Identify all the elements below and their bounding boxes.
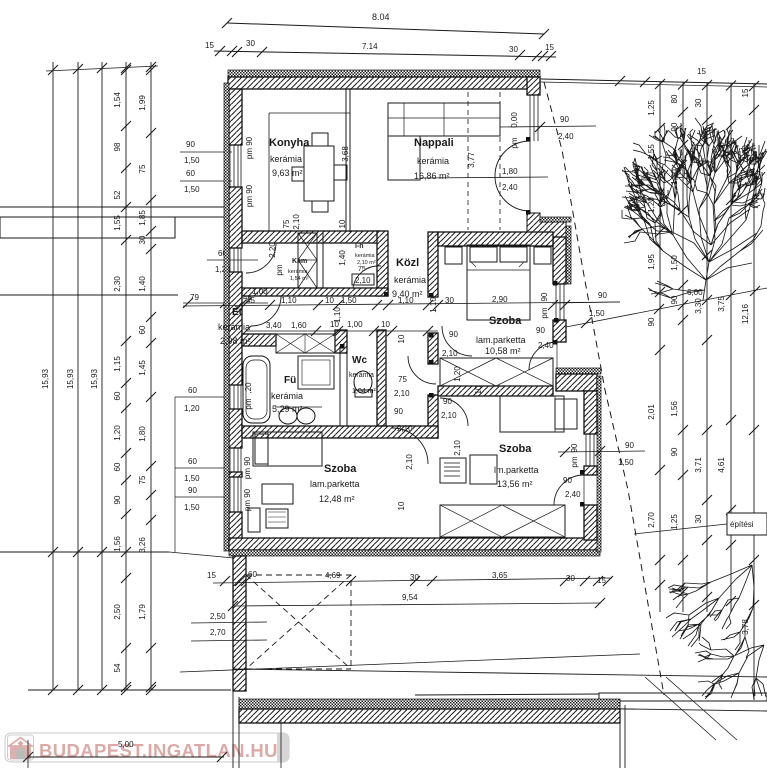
svg-text:60: 60 — [113, 391, 122, 400]
svg-text:15: 15 — [207, 571, 216, 580]
sidewalk line — [558, 708, 767, 711]
left wall window (Szoba2 a) — [229, 448, 231, 472]
Kam closet with X — [298, 233, 317, 288]
right dim line 5 — [753, 84, 755, 612]
svg-text:7.14: 7.14 — [362, 42, 378, 51]
svg-text:10: 10 — [338, 219, 347, 228]
Wc door arc — [408, 356, 436, 384]
svg-text:2,70: 2,70 — [647, 512, 656, 528]
svg-text:4,61: 4,61 — [717, 457, 726, 473]
left dim line 4 — [125, 62, 127, 690]
Kam/I-h divider — [316, 233, 318, 296]
svg-text:1,40: 1,40 — [338, 250, 347, 266]
svg-text:lam.parketta: lam.parketta — [476, 335, 526, 345]
svg-text:kerámia: kerámia — [271, 391, 303, 401]
Szoba1 left door — [442, 326, 472, 356]
svg-text:lm.parketta: lm.parketta — [494, 465, 539, 475]
terrace dashed X — [246, 575, 351, 669]
svg-text:10: 10 — [474, 385, 483, 394]
svg-text:60: 60 — [188, 386, 197, 395]
svg-text:3,78: 3,78 — [741, 619, 750, 635]
left wall window (Konyha) — [229, 145, 231, 187]
svg-text:60: 60 — [113, 462, 122, 471]
Szoba3 desk computer — [440, 458, 466, 483]
watermark logo — [8, 735, 34, 760]
svg-text:pm: pm — [244, 398, 253, 409]
svg-text:12,48 m²: 12,48 m² — [319, 494, 355, 504]
svg-text:1,79: 1,79 — [138, 604, 147, 620]
svg-text:90: 90 — [647, 317, 656, 326]
svg-text:45: 45 — [246, 296, 255, 305]
central wall lower — [428, 395, 438, 438]
svg-text:2,10: 2,10 — [394, 389, 410, 398]
top connector line over left lines — [46, 66, 158, 71]
svg-text:10: 10 — [381, 320, 390, 329]
SE east door — [554, 475, 584, 505]
svg-text:30: 30 — [694, 514, 703, 523]
svg-text:1,85: 1,85 — [138, 210, 147, 226]
svg-text:pm 90: pm 90 — [245, 184, 254, 207]
left dim line 5 — [150, 62, 152, 690]
svg-text:75: 75 — [398, 375, 407, 384]
svg-text:1,00: 1,00 — [347, 320, 363, 329]
Wc toilet — [354, 371, 372, 393]
svg-text:1,10: 1,10 — [333, 307, 342, 323]
Szoba1 top wall — [438, 232, 553, 246]
SE step band — [556, 368, 601, 374]
Szoba2 shelf — [248, 508, 260, 532]
dim 5,00 — [28, 756, 224, 758]
svg-text:Szoba: Szoba — [499, 443, 532, 455]
left wall piece 2 — [229, 409, 242, 448]
left wall outer insulation — [224, 83, 229, 551]
right dim line 3 — [706, 83, 708, 612]
Wc left wall — [339, 346, 341, 426]
svg-text:Szoba: Szoba — [324, 463, 357, 475]
svg-text:1,50: 1,50 — [589, 309, 605, 318]
svg-text:4,69: 4,69 — [325, 571, 341, 580]
svg-text:1,56: 1,56 — [113, 536, 122, 552]
svg-text:30: 30 — [410, 573, 419, 582]
bottom wall — [229, 538, 600, 550]
SE east window — [585, 434, 587, 466]
svg-text:30: 30 — [566, 574, 575, 583]
svg-text:2,98 m²: 2,98 m² — [220, 336, 251, 346]
svg-text:90: 90 — [670, 447, 679, 456]
svg-text:1,54 m²: 1,54 m² — [290, 276, 309, 282]
svg-text:pm 90: pm 90 — [243, 456, 252, 479]
door to Szoba2 — [392, 428, 428, 464]
svg-text:90: 90 — [563, 476, 572, 485]
terrace dim line — [213, 578, 612, 583]
dashed setback line — [544, 82, 664, 695]
svg-text:75: 75 — [282, 219, 291, 228]
dim 9,54 line — [233, 603, 600, 606]
svg-text:90: 90 — [570, 443, 579, 452]
svg-text:3,26: 3,26 — [138, 537, 147, 553]
Szoba1 wardrobe X — [440, 358, 553, 386]
watermark box — [5, 733, 289, 762]
svg-text:pm 90: pm 90 — [245, 136, 254, 159]
svg-text:30: 30 — [445, 296, 454, 305]
svg-text:54: 54 — [113, 663, 122, 672]
svg-text:0,00: 0,00 — [510, 112, 519, 128]
dim 79/45 — [183, 302, 268, 304]
svg-text:5,00: 5,00 — [118, 740, 134, 749]
Wc right wall — [377, 330, 386, 426]
right dim line 2 — [682, 83, 684, 613]
wall above Fürdő — [242, 334, 276, 346]
svg-text:75: 75 — [358, 266, 366, 273]
svg-text:90: 90 — [670, 295, 679, 304]
svg-text:79: 79 — [190, 293, 199, 302]
svg-text:8.04: 8.04 — [372, 12, 390, 22]
svg-text:60: 60 — [188, 457, 197, 466]
svg-text:építési: építési — [730, 520, 754, 529]
svg-text:1,50: 1,50 — [618, 458, 634, 467]
door jamb blocks — [526, 137, 531, 142]
svg-text:3,30: 3,30 — [694, 298, 703, 314]
SE east wall mid — [584, 466, 597, 475]
svg-text:15: 15 — [741, 88, 750, 97]
Szoba3 table — [470, 455, 497, 484]
I-h right wall — [377, 231, 388, 296]
svg-text:pm: pm — [570, 456, 579, 467]
dim 90/2,40 NE window — [500, 126, 596, 127]
svg-text:kerámia: kerámia — [394, 275, 426, 285]
bottom diagonal leader lines — [645, 677, 716, 740]
SE east insulation strip — [597, 376, 601, 552]
svg-text:1,99: 1,99 — [138, 95, 147, 111]
svg-text:15: 15 — [545, 43, 554, 52]
svg-text:2,40: 2,40 — [565, 490, 581, 499]
Konyha inner corner lines — [269, 112, 350, 114]
slanted dim 6,00 — [566, 288, 767, 327]
svg-text:1,45: 1,45 — [138, 360, 147, 376]
neighbour block — [0, 217, 175, 238]
svg-text:3,65: 3,65 — [492, 571, 508, 580]
svg-text:2,50: 2,50 — [210, 612, 226, 621]
left wall window (Kam) — [229, 248, 231, 272]
Szoba1 nightstands — [445, 247, 462, 264]
SE step insulation — [540, 217, 571, 222]
svg-text:80: 80 — [670, 94, 679, 103]
left wall window (Szoba2 b) — [229, 477, 231, 512]
svg-text:1,50: 1,50 — [184, 156, 200, 165]
svg-text:3,71: 3,71 — [694, 457, 703, 473]
left wall window (Fürdő) — [229, 385, 231, 409]
north plot line right — [541, 79, 767, 84]
trunk dim line — [753, 612, 755, 700]
left horizontal line y552 — [0, 551, 169, 553]
east window Szoba1 — [555, 284, 557, 320]
SE east wall lower — [584, 505, 597, 540]
svg-text:3,40: 3,40 — [266, 321, 282, 330]
wall under Kam/I-h — [242, 288, 388, 296]
svg-text:kerámia: kerámia — [288, 269, 309, 275]
Szoba3 wardrobe X — [440, 505, 565, 537]
svg-text:2,10: 2,10 — [453, 440, 462, 456]
dim 90 window east2 — [558, 451, 645, 452]
svg-text:15: 15 — [597, 576, 606, 585]
Kam door arc — [246, 243, 276, 273]
top wall — [228, 77, 540, 89]
svg-text:90: 90 — [443, 397, 452, 406]
svg-text:1,95: 1,95 — [647, 254, 656, 270]
door to Szoba3 — [440, 398, 468, 426]
Nappali east window — [529, 95, 531, 141]
Szoba3 bed — [500, 396, 564, 432]
Ét door arc — [251, 296, 281, 326]
svg-text:lam.parketta: lam.parketta — [310, 479, 360, 489]
svg-text:30: 30 — [509, 45, 518, 54]
svg-text:kerámia: kerámia — [355, 253, 376, 259]
svg-text:pm: pm — [275, 264, 284, 275]
Nappali sofa — [388, 103, 500, 136]
svg-text:75: 75 — [138, 475, 147, 484]
svg-text:90: 90 — [449, 330, 458, 339]
svg-text:2,70: 2,70 — [210, 628, 226, 637]
svg-text:1,10: 1,10 — [398, 296, 414, 305]
svg-text:Wc: Wc — [352, 355, 367, 366]
svg-text:3,75: 3,75 — [717, 296, 726, 312]
svg-text:2,40: 2,40 — [502, 183, 518, 192]
svg-text:10,58 m²: 10,58 m² — [485, 346, 521, 356]
svg-text:90: 90 — [540, 292, 549, 301]
pavement slab — [415, 694, 599, 695]
SE east wall upper — [584, 391, 597, 434]
svg-text:kerámia: kerámia — [270, 154, 302, 164]
svg-text:13,56 m²: 13,56 m² — [497, 479, 533, 489]
svg-text:Közl: Közl — [396, 257, 419, 269]
svg-text:2,40: 2,40 — [558, 132, 574, 141]
svg-text:15,93: 15,93 — [41, 368, 50, 389]
svg-text:2,10: 2,10 — [405, 454, 414, 470]
svg-text:90: 90 — [394, 407, 403, 416]
svg-text:1,20: 1,20 — [453, 366, 462, 382]
svg-text:1,56: 1,56 — [670, 401, 679, 417]
dim 90 window east1 — [552, 302, 620, 303]
left plot line 3 — [101, 62, 103, 690]
svg-text:9,54: 9,54 — [402, 593, 418, 602]
svg-text:2,40: 2,40 — [538, 341, 554, 350]
svg-text:1,40: 1,40 — [138, 276, 147, 292]
svg-text:10: 10 — [397, 334, 406, 343]
svg-text:1,80: 1,80 — [502, 167, 518, 176]
svg-text:1,00: 1,00 — [252, 287, 268, 296]
svg-text:30: 30 — [246, 39, 255, 48]
svg-text:1,50: 1,50 — [184, 185, 200, 194]
Nappali terrace door arcs — [495, 141, 530, 176]
Szoba1 bed — [467, 245, 530, 320]
left horizontal line y295 — [0, 294, 178, 296]
svg-text:1,80: 1,80 — [138, 426, 147, 442]
driveway hatch strip — [239, 699, 620, 709]
svg-text:90: 90 — [536, 326, 545, 335]
bottom wall insulation strip — [229, 550, 600, 556]
svg-text:1,10: 1,10 — [429, 297, 438, 313]
svg-text:I-h: I-h — [355, 243, 364, 250]
central wall upper — [428, 232, 438, 297]
main dim chain y305 — [183, 302, 620, 306]
Szoba2 desk — [262, 484, 293, 504]
svg-text:75: 75 — [138, 164, 147, 173]
svg-text:52: 52 — [113, 190, 122, 199]
svg-text:9,63 m²: 9,63 m² — [272, 168, 303, 178]
svg-text:BUDAPEST.INGATLAN.HU: BUDAPEST.INGATLAN.HU — [39, 740, 278, 761]
svg-text:12,16: 12,16 — [741, 303, 750, 324]
svg-text:60: 60 — [248, 570, 257, 579]
I-h door arc — [353, 266, 381, 288]
svg-text:pm: pm — [540, 307, 549, 318]
left wall mid upper — [229, 187, 242, 248]
left wall upper — [229, 89, 242, 145]
svg-text:Kam: Kam — [292, 258, 307, 265]
svg-text:1,10: 1,10 — [281, 296, 297, 305]
svg-text:1,50: 1,50 — [184, 474, 200, 483]
svg-text:Fü: Fü — [284, 375, 296, 386]
Konyha/Nappali divider wall — [345, 89, 347, 232]
svg-text:2,10: 2,10 — [441, 411, 457, 420]
svg-text:90: 90 — [598, 291, 607, 300]
Fürdő cabinet X — [276, 334, 335, 353]
right dim line 1 — [659, 82, 661, 612]
left-building connector — [169, 552, 234, 558]
svg-text:kerámia: kerámia — [417, 156, 449, 166]
svg-text:90: 90 — [560, 115, 569, 124]
svg-text:15,93: 15,93 — [66, 368, 75, 389]
garden slant line — [180, 654, 640, 672]
Fürdő washbasins — [279, 408, 297, 424]
építési leader line — [634, 524, 727, 534]
svg-text:1,54: 1,54 — [113, 92, 122, 108]
svg-text:30: 30 — [694, 98, 703, 107]
top wall insulation strip — [228, 70, 540, 77]
svg-text:2,50: 2,50 — [113, 604, 122, 620]
Nappali dashed projection — [467, 92, 469, 230]
svg-text:2,30: 2,30 — [113, 276, 122, 292]
svg-text:90: 90 — [188, 486, 197, 495]
tree crown — [622, 118, 767, 300]
central wall mid — [428, 333, 438, 364]
NE corner wall — [527, 77, 540, 95]
svg-text:Szoba: Szoba — [489, 315, 522, 327]
Fürdő bathtub — [243, 356, 270, 423]
dim chain 2 y331 — [246, 330, 438, 332]
neighbour double line — [0, 206, 233, 208]
east door Szoba1 — [529, 342, 557, 370]
svg-text:1,50: 1,50 — [184, 503, 200, 512]
Konyha table — [304, 146, 334, 201]
svg-text:1,20: 1,20 — [184, 404, 200, 413]
svg-text:1,60: 1,60 — [291, 321, 307, 330]
driveway left edge — [232, 690, 234, 768]
dimension line 8.04 (top) — [227, 23, 544, 34]
svg-text:1,25: 1,25 — [647, 100, 656, 116]
Szoba2 bed — [253, 432, 322, 466]
svg-text:Ét: Ét — [232, 305, 243, 318]
svg-text:,20: ,20 — [244, 382, 253, 394]
svg-text:30: 30 — [138, 235, 147, 244]
left wall mid — [229, 272, 242, 385]
svg-text:15: 15 — [205, 41, 214, 50]
svg-text:kerámia: kerámia — [218, 322, 250, 332]
left wall lower — [229, 512, 242, 545]
svg-text:90: 90 — [625, 441, 634, 450]
svg-text:60: 60 — [138, 325, 147, 334]
right dim line ticks bottom — [655, 580, 665, 590]
svg-text:15,93: 15,93 — [90, 368, 99, 389]
svg-text:2,20: 2,20 — [268, 242, 277, 258]
terrace left wall — [233, 556, 246, 691]
svg-text:10: 10 — [325, 296, 334, 305]
east wall piece — [553, 320, 566, 342]
Szoba1/Szoba3 wall — [438, 386, 553, 396]
left wall piece 3 — [229, 472, 242, 477]
svg-text:1,20: 1,20 — [113, 425, 122, 441]
tree roots — [666, 565, 766, 699]
svg-text:1,15: 1,15 — [113, 356, 122, 372]
svg-text:1,25: 1,25 — [670, 514, 679, 530]
left plot line 2 — [77, 62, 79, 690]
driveway right edge — [619, 700, 621, 768]
east wall upper (Szoba) — [553, 237, 566, 284]
svg-text:2,10: 2,10 — [355, 276, 371, 285]
svg-text:2,10: 2,10 — [442, 349, 458, 358]
dimension line 7.14 with 15/30 ends — [214, 51, 556, 57]
svg-text:90: 90 — [113, 495, 122, 504]
építési label box — [727, 513, 767, 535]
left plot line 1 — [52, 62, 54, 690]
svg-text:2,10: 2,10 — [292, 214, 301, 230]
svg-text:98: 98 — [113, 142, 122, 151]
Fürdő shower box — [298, 356, 334, 389]
svg-text:2,10: 2,10 — [397, 424, 413, 433]
ground line left — [28, 689, 231, 691]
svg-text:10: 10 — [397, 501, 406, 510]
svg-text:90: 90 — [186, 140, 195, 149]
terrace bottom edge line — [233, 669, 767, 677]
SE step of Nappali — [527, 213, 566, 237]
svg-text:15: 15 — [697, 67, 706, 76]
svg-text:60: 60 — [186, 169, 195, 178]
wall under Konyha/I-h — [242, 231, 380, 243]
svg-text:2,90: 2,90 — [492, 295, 508, 304]
window dim extension lines — [174, 397, 176, 552]
right dim line 4 — [730, 84, 732, 613]
wall under Fürdő/Wc — [242, 426, 438, 438]
svg-text:2,01: 2,01 — [647, 404, 656, 420]
svg-text:1,50: 1,50 — [341, 296, 357, 305]
